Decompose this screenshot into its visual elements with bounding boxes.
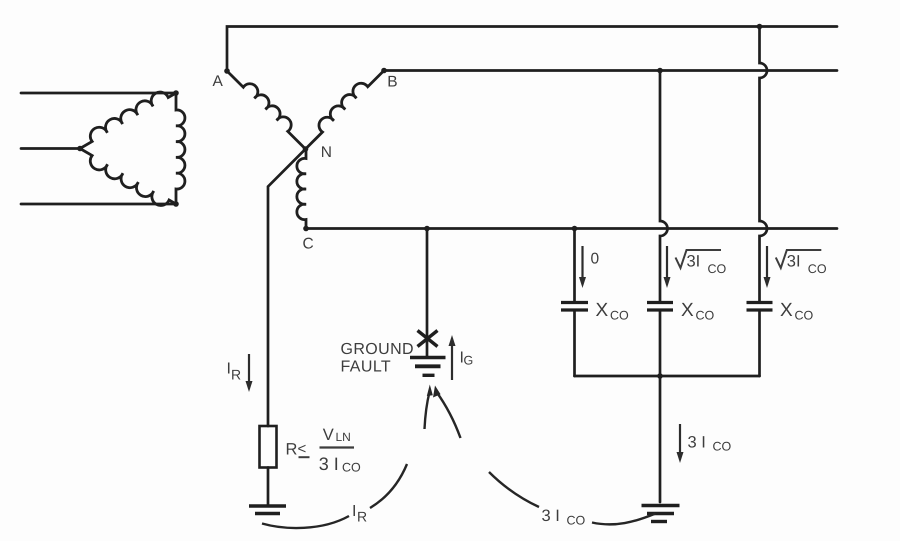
svg-text:I: I	[352, 503, 356, 520]
svg-text:3 I: 3 I	[542, 507, 560, 525]
svg-text:CO: CO	[808, 262, 827, 276]
svg-text:3I: 3I	[687, 253, 701, 271]
svg-text:CO: CO	[795, 309, 814, 323]
svg-text:G: G	[464, 354, 474, 368]
svg-text:R: R	[231, 367, 241, 383]
svg-text:X: X	[596, 300, 609, 321]
svg-text:3 I: 3 I	[688, 434, 706, 452]
svg-text:<: <	[298, 441, 307, 458]
svg-text:FAULT: FAULT	[341, 359, 392, 376]
svg-text:C: C	[303, 236, 314, 253]
svg-text:CO: CO	[708, 262, 727, 276]
svg-text:CO: CO	[342, 461, 361, 475]
svg-text:N: N	[321, 144, 332, 161]
svg-text:A: A	[213, 73, 224, 90]
svg-text:LN: LN	[336, 430, 351, 444]
svg-text:B: B	[387, 74, 397, 91]
svg-text:3 I: 3 I	[319, 454, 339, 474]
svg-text:R: R	[357, 509, 367, 525]
svg-text:GROUND: GROUND	[341, 341, 415, 358]
svg-text:3I: 3I	[787, 253, 801, 271]
svg-text:CO: CO	[713, 440, 732, 454]
svg-text:X: X	[681, 300, 694, 321]
svg-text:R: R	[286, 441, 298, 459]
svg-text:X: X	[780, 300, 793, 321]
svg-text:V: V	[323, 426, 334, 444]
svg-text:CO: CO	[696, 309, 715, 323]
svg-text:CO: CO	[610, 309, 629, 323]
svg-text:0: 0	[591, 251, 600, 268]
svg-text:CO: CO	[567, 514, 586, 528]
